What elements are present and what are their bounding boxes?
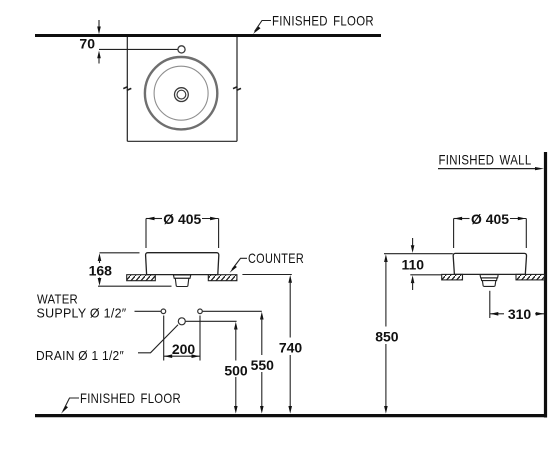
svg-text:500: 500 [224,362,248,378]
finished wall leader underline with arrow [438,167,544,170]
dim 168 vertical line with arrows [98,253,102,286]
svg-text:200: 200 [172,341,196,357]
label FINISHED FLOOR (top) [272,13,374,29]
extension line from drain hole to 500 [186,320,237,322]
svg-text:FINISHED WALL: FINISHED WALL [439,152,532,168]
finished wall line (thick vertical) [544,152,547,418]
drain flange upper (side view) [480,275,498,278]
svg-text:SUPPLY Ø 1/2″: SUPPLY Ø 1/2″ [37,305,127,320]
svg-text:310: 310 [508,306,532,322]
dim 740 vertical with arrows [288,275,292,414]
counter hatched strip right (side view) [516,274,545,280]
basin rim circle (plan) [145,57,217,129]
drain flange (front view) [173,275,190,278]
dim 200 extension line left [163,316,165,361]
dim 168 top extension line [100,252,140,254]
basin bowl inner circle (plan) [154,66,208,120]
counter hatched strip right (front view) [208,275,237,281]
basin body (side view) [453,253,526,274]
dim 500 vertical with arrows [234,322,238,414]
dim 200 extension line right [199,316,201,361]
dim Ø405 right: extension line right [525,219,527,249]
break mark right edge [233,87,241,91]
water supply hole right [198,309,203,314]
dimension 70 extension/leader line to faucet hole [99,48,178,50]
drain outer circle (plan) [175,88,189,102]
drain flange lower ring (side view) [481,278,497,281]
dim 740 top extension line [242,274,291,276]
drain tailpiece (front view) [175,278,189,286]
dimension 70 lower tick with arrow [97,51,101,64]
svg-text:740: 740 [279,339,303,355]
svg-text:Ø 405: Ø 405 [163,211,201,227]
svg-text:850: 850 [375,328,399,344]
counter hatched strip left (front view) [127,275,156,281]
dim 310 dimension line with arrows [490,312,544,316]
leader drain (horizontal then diagonal to circle) [138,325,178,353]
extension line below drain (side view centerline) [489,291,491,318]
finished floor line (bottom, thick) [35,414,547,417]
svg-text:168: 168 [89,263,113,279]
dim 200 dimension line with arrows [164,354,200,358]
leader to bottom floor line [61,398,79,414]
svg-text:WATER: WATER [37,292,78,307]
dim Ø405 left: extension line left [145,219,147,249]
counter outline (plan view) [127,37,237,141]
break mark left edge [123,87,131,91]
drain hole circle [178,318,185,325]
dim 110 lower tick with arrow [411,275,415,290]
dim 110 upper tick with arrow [411,238,415,253]
svg-text:550: 550 [251,357,275,373]
dim 168 bottom extension line [98,285,172,287]
dim Ø405 right: extension line left [453,219,455,249]
dim 850 top extension line [384,253,453,255]
dim 850 vertical with arrows [384,254,388,413]
dim Ø405 right: dimension line and arrows [454,217,527,221]
dim Ø405 left: dimension line and arrows [146,217,219,221]
dim Ø405 left: extension line right [218,219,220,249]
label WATER SUPPLY Ø 1/2" [37,292,127,321]
finished floor line (top plan view, thick) [35,34,381,37]
svg-text:FINISHED FLOOR: FINISHED FLOOR [80,390,181,406]
water supply hole left [161,309,166,314]
leader COUNTER to right strip [230,258,248,273]
svg-text:Ø 405: Ø 405 [471,211,509,227]
dimension 70 upper tick with arrow [97,20,101,34]
svg-text:FINISHED FLOOR: FINISHED FLOOR [272,13,374,29]
basin body (front view) [146,253,219,275]
faucet hole circle (plan) [178,46,185,53]
drain inner circle (plan) [177,90,186,99]
svg-text:110: 110 [402,257,425,273]
dim 550 vertical with arrows [260,312,264,414]
dim 110 lower extension line [410,274,441,276]
drain tailpiece (side view) [482,281,495,287]
counter hatched strip left (side view) [442,274,463,280]
svg-text:70: 70 [79,36,95,52]
leader water supply [135,310,161,312]
svg-text:COUNTER: COUNTER [248,250,304,266]
svg-text:DRAIN Ø 1 1/2″: DRAIN Ø 1 1/2″ [36,348,124,363]
extension line from right supply hole to 550 [203,310,262,312]
leader to top floor line [253,21,271,35]
